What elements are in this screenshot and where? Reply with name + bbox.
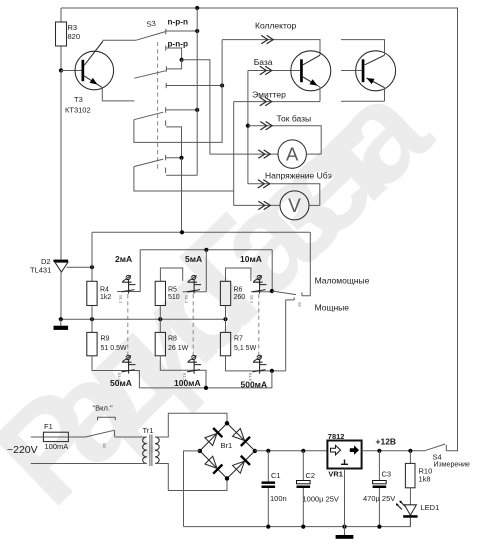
svg-text:~220V: ~220V xyxy=(7,444,38,456)
svg-text:S1.1: S1.1 xyxy=(119,295,124,304)
meter A xyxy=(278,140,306,168)
node bridge left xyxy=(198,449,202,453)
svg-text:S1.3: S1.3 xyxy=(250,295,255,304)
wire R9 to 50mA contact xyxy=(92,356,139,388)
switch S5 xyxy=(86,430,115,437)
wire range bus 2-5-10mA xyxy=(140,249,272,251)
wire voltmeter row xyxy=(234,204,280,206)
wire resistor top bus xyxy=(92,231,310,233)
diode Br1 top-right xyxy=(232,428,251,447)
LED LED1 xyxy=(396,488,439,527)
wire bus2 to S2 common xyxy=(271,250,273,291)
wire AC neutral to primary xyxy=(31,463,143,465)
wire T3 base xyxy=(61,70,82,72)
svg-text:R9: R9 xyxy=(101,336,110,343)
wire secondary bottom to bridge xyxy=(159,464,227,491)
svg-text:5,1 5W: 5,1 5W xyxy=(234,345,257,352)
svg-text:50мА: 50мА xyxy=(110,378,132,388)
switch S1.5 wiper 100mA xyxy=(187,355,201,373)
resistor R5 xyxy=(155,281,165,305)
svg-text:Tr1: Tr1 xyxy=(143,426,154,435)
switch S3 pole 1b arm xyxy=(134,71,166,79)
wire PNP base stub xyxy=(341,70,362,72)
svg-text:820: 820 xyxy=(68,32,81,41)
wire AC live to fuse xyxy=(31,436,44,438)
svg-text:LED1: LED1 xyxy=(421,503,440,512)
ground symbol power xyxy=(344,527,346,535)
node 5mA bus junction xyxy=(204,248,208,252)
node bus junction from S3 xyxy=(180,230,184,234)
wire R6-R7 mid xyxy=(225,306,227,333)
switch S3 pole 3 arm xyxy=(134,159,163,167)
wire PNP emitter bracket xyxy=(341,88,385,102)
svg-text:R5: R5 xyxy=(168,287,177,294)
node T3 base junction xyxy=(59,68,63,72)
wire R3 top stem xyxy=(60,8,62,22)
resistor R9 xyxy=(87,332,97,355)
svg-text:F1: F1 xyxy=(44,422,53,431)
svg-text:C1: C1 xyxy=(271,471,281,480)
svg-text:"Вкл.": "Вкл." xyxy=(93,404,113,413)
svg-text:Ток базы: Ток базы xyxy=(277,114,312,124)
svg-text:S4: S4 xyxy=(433,453,442,462)
capacitor C2 xyxy=(297,451,339,527)
connector X emitter xyxy=(260,97,272,105)
wire 10mA contact line xyxy=(251,291,272,293)
svg-text:500мА: 500мА xyxy=(241,380,268,390)
svg-text:База: База xyxy=(254,57,273,67)
node bridge right xyxy=(253,449,257,453)
node ground rail col2 xyxy=(158,317,162,321)
S3 pole 2 lower throw contact xyxy=(166,120,182,157)
connector X Ube xyxy=(258,180,270,188)
svg-text:Br1: Br1 xyxy=(221,441,233,450)
node ground rail col1 xyxy=(90,317,94,321)
node rail regulator gnd xyxy=(342,525,346,529)
wire 2mA contact bracket xyxy=(117,250,140,292)
wire voltmeter right loop xyxy=(309,204,320,206)
svg-text:470µ 25V: 470µ 25V xyxy=(363,494,395,503)
S3 pole 3 lower throw contact xyxy=(166,168,198,176)
wire base feed vertical xyxy=(247,71,249,184)
S3 pole 1a lower throw contact xyxy=(166,45,182,59)
node pole1b lower junction xyxy=(220,83,224,87)
node pole1a upper junction xyxy=(195,29,199,33)
node rail C2 xyxy=(301,525,305,529)
svg-text:C2: C2 xyxy=(306,471,316,480)
node D2 ref junction xyxy=(90,265,94,269)
svg-text:R4: R4 xyxy=(100,287,109,294)
wire pole2 pivot bracket xyxy=(134,40,222,143)
S2 lower throw Moshchnye xyxy=(286,297,295,371)
wire emitter row xyxy=(234,101,320,103)
transistor T3 xyxy=(65,42,114,115)
wire bottom range bus xyxy=(139,371,272,388)
svg-text:Напряжение Uбэ: Напряжение Uбэ xyxy=(265,171,332,181)
connector X collector xyxy=(261,35,273,43)
bridge rectifier Br1 xyxy=(200,423,255,478)
diode Br1 bottom-left xyxy=(204,456,223,475)
svg-text:p-n-p: p-n-p xyxy=(168,40,188,49)
svg-text:1000µ 25V: 1000µ 25V xyxy=(303,495,339,504)
node C3 top xyxy=(377,449,381,453)
diode Br1 top-left xyxy=(204,427,223,446)
node R10 top junction xyxy=(408,449,412,453)
svg-text:V: V xyxy=(288,196,301,217)
wire R4 column vertical xyxy=(91,232,93,281)
svg-text:100мА: 100мА xyxy=(174,378,201,388)
wire pole3 upper down to resistor bus xyxy=(181,158,183,233)
node rail C1 xyxy=(266,525,270,529)
svg-text:T3: T3 xyxy=(74,95,83,104)
node tok bazy junction xyxy=(246,124,250,128)
transformer Tr1 xyxy=(143,426,160,466)
diode D2 TL431 xyxy=(30,257,92,319)
svg-text:260: 260 xyxy=(234,294,246,301)
connector X tok bazy xyxy=(260,122,272,130)
node bridge bottom xyxy=(225,476,229,480)
svg-text:1k8: 1k8 xyxy=(419,475,431,484)
meter V xyxy=(280,191,309,220)
wire NPN emitter bracket xyxy=(318,86,321,102)
switch S1.6 wiper 500mA xyxy=(253,355,267,373)
node pole3 upper junction xyxy=(179,156,183,160)
wire tok bazy row xyxy=(248,126,321,154)
resistor R7 xyxy=(220,332,230,355)
svg-text:КТ3102: КТ3102 xyxy=(65,106,91,115)
wire R5 pivot bracket xyxy=(160,268,182,281)
wire secondary top to bridge xyxy=(159,413,227,437)
svg-text:R7: R7 xyxy=(234,336,243,343)
wire fuse to S5 xyxy=(68,436,85,438)
node rail C3 xyxy=(377,525,381,529)
wire Ube row xyxy=(248,184,320,206)
switch S1.4 wiper 50mA xyxy=(122,355,136,373)
S3 mechanical link (dashed) xyxy=(157,42,159,171)
switch S1.3 wiper 10mA xyxy=(253,275,267,293)
resistor R3 xyxy=(56,22,67,46)
wire base node down to D2 xyxy=(60,71,62,260)
svg-text:+12В: +12В xyxy=(376,437,397,447)
svg-text:51 0.5W: 51 0.5W xyxy=(101,345,127,352)
fuse F1 xyxy=(43,432,68,441)
diode Br1 bottom-right xyxy=(232,455,251,474)
switch S4 xyxy=(425,444,445,451)
switch S2 arm xyxy=(272,291,296,295)
node 500mA junction xyxy=(270,369,274,373)
transistor under test NPN socket xyxy=(291,51,331,91)
S3 pole 3 upper throw contact xyxy=(166,155,182,160)
wire R8 to 100mA contact xyxy=(160,356,206,388)
resistor R8 xyxy=(155,332,165,355)
mech link S1 col1 (dashed) xyxy=(127,294,129,357)
switch S3 pole 2 arm xyxy=(134,112,163,120)
switch S1.2 wiper 5mA xyxy=(187,275,201,293)
svg-text:10мА: 10мА xyxy=(240,254,262,264)
resistor R6 xyxy=(220,281,230,305)
switch S3 pole 1a arm xyxy=(136,32,165,41)
S3 pole 2 upper throw contact xyxy=(166,107,198,112)
capacitor C1 xyxy=(262,451,287,527)
wire R5-R8 mid xyxy=(159,306,161,333)
node S2 common junction xyxy=(270,289,274,293)
switch S1.1 wiper 2mA xyxy=(122,275,136,293)
wire regulator ground pin xyxy=(344,469,346,527)
wire ammeter row xyxy=(210,153,278,155)
wire pole1a lower to A-meter feed xyxy=(182,60,210,154)
node pole1a lower junction xyxy=(180,58,184,62)
wire bottom ground rail xyxy=(184,518,411,527)
connector X base xyxy=(260,66,272,74)
wire R4-R9 mid xyxy=(91,306,93,333)
svg-text:R8: R8 xyxy=(168,336,177,343)
svg-text:26 1W: 26 1W xyxy=(168,345,189,352)
svg-text:Измерение: Измерение xyxy=(434,462,471,469)
resistor R4 xyxy=(87,281,97,305)
wire ammeter right loop xyxy=(306,153,321,155)
voltage regulator U VR1 7812 xyxy=(327,432,361,479)
connector X ammeter xyxy=(258,150,270,158)
svg-text:S2: S2 xyxy=(298,302,303,308)
S3 pole 1b upper throw contact xyxy=(166,60,181,72)
resistor R10 xyxy=(405,451,432,488)
svg-text:7812: 7812 xyxy=(328,432,345,441)
wire plus rail to regulator xyxy=(255,450,328,452)
svg-text:Коллектор: Коллектор xyxy=(255,21,296,31)
node top bus junction xyxy=(195,6,199,10)
svg-text:2мА: 2мА xyxy=(115,254,132,264)
svg-text:Эмиттер: Эмиттер xyxy=(252,90,286,100)
node pole2 upper junction xyxy=(195,108,199,112)
svg-text:1k2: 1k2 xyxy=(100,294,111,301)
wire emitter feed vertical xyxy=(233,102,235,206)
node bridge top xyxy=(225,421,229,425)
svg-text:100mA: 100mA xyxy=(45,442,69,451)
wire collector row xyxy=(222,40,320,56)
svg-text:C3: C3 xyxy=(382,470,392,479)
svg-text:Маломощные: Маломощные xyxy=(315,276,370,286)
svg-text:510: 510 xyxy=(168,294,180,301)
svg-text:5мА: 5мА xyxy=(185,254,202,264)
svg-text:R6: R6 xyxy=(234,287,243,294)
wire S3 common vertical from top bus xyxy=(196,8,198,175)
S3 pole 1b lower throw contact xyxy=(166,83,222,88)
transistor under test PNP socket xyxy=(356,51,396,91)
wire top bus from R3 top across and down right side to S4 xyxy=(61,8,458,451)
mech link S1 col3 (dashed) xyxy=(258,294,260,357)
S3 pole 1a upper throw contact xyxy=(166,29,197,34)
svg-text:A: A xyxy=(286,143,299,164)
node C1 top xyxy=(266,449,270,453)
node ground rail col3 xyxy=(223,317,227,321)
svg-text:R3: R3 xyxy=(68,23,78,32)
wire T3 emitter to S3 pole 1b pivot xyxy=(102,87,134,101)
node ground rail D2 xyxy=(59,317,63,321)
wire PNP collector bracket xyxy=(341,40,385,56)
wire ground rail xyxy=(61,318,226,320)
wire 5mA contact line xyxy=(183,250,207,292)
wire T3 collector to S3 pole 1a pivot xyxy=(103,40,137,41)
wire S5 to transformer primary xyxy=(115,436,143,438)
node C2 top xyxy=(301,449,305,453)
ground symbol xyxy=(60,319,62,326)
svg-text:S1.2: S1.2 xyxy=(184,295,189,304)
wire bridge minus to ground rail xyxy=(184,451,200,527)
wire R6 pivot bracket xyxy=(226,268,251,281)
svg-text:VR1: VR1 xyxy=(328,470,343,479)
mech link S1 col2 (dashed) xyxy=(192,294,194,357)
wire R3 to base node xyxy=(60,46,62,71)
capacitor C3 xyxy=(363,451,395,527)
svg-text:n-p-n: n-p-n xyxy=(168,18,188,27)
svg-text:S5: S5 xyxy=(102,443,107,449)
wire pole3 pivot bracket xyxy=(134,167,234,191)
node bottom bus junction xyxy=(204,386,208,390)
wire base row xyxy=(248,70,300,72)
wire regulator output rail xyxy=(362,450,425,452)
wire R7 to 500mA contact xyxy=(226,356,286,371)
svg-text:100n: 100n xyxy=(270,494,287,503)
svg-text:S3: S3 xyxy=(146,19,156,29)
svg-text:Мощные: Мощные xyxy=(315,303,350,313)
svg-text:TL431: TL431 xyxy=(30,266,51,275)
S2 upper throw Malomoshchnye xyxy=(302,232,310,295)
connector X voltmeter xyxy=(258,201,270,209)
